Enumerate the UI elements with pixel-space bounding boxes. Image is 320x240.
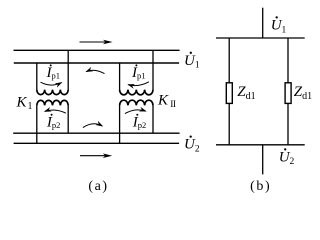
transformer K1 primary winding [37,90,68,95]
current label Ip1 (K2) [131,64,146,80]
current arrow Ip1 (K1) [41,82,62,85]
wire: bottom busbar line 2 (outer) [14,142,180,144]
svg-text:Ip2: Ip2 [46,114,61,130]
transformer K2 primary left lead [119,63,121,90]
current label Ip2 (K2) [132,114,147,131]
current label Ip2 (K1) [46,114,61,131]
transformer K1 secondary winding [37,100,68,105]
svg-text:Ip2: Ip2 [132,114,147,130]
wire: bottom busbar line 1 (inner) [13,132,179,134]
svg-text:U2: U2 [184,137,200,155]
transformer K2 secondary left lead [119,105,121,143]
transformer K2 primary winding [120,90,153,95]
impedance Zd1 right box [285,83,291,104]
current label Ip1 (K1) [46,64,61,80]
node U1 label (a) [184,52,200,71]
node U1 label (b) [271,16,287,35]
wire: left branch lower (b) [228,103,230,144]
circulating current arrow lower middle [83,124,102,128]
svg-text:KII: KII [157,92,176,110]
wire: right branch upper (b) [287,38,289,83]
svg-text:K1: K1 [16,94,33,112]
transformer K2 primary right lead [152,50,154,90]
svg-text:Ip1: Ip1 [131,65,146,81]
transformer K1 secondary left lead [36,105,38,143]
impedance Zd1 left box [226,83,232,104]
current arrow below bottom busbar [80,153,112,158]
node U2 label (a) [184,135,200,154]
wire: left branch upper (b) [228,38,230,83]
current arrow above top busbar [80,40,113,45]
transformer K1 primary left lead [36,63,38,90]
node U2 label (b) [279,148,295,167]
wire: U1 stub (b) [262,8,264,38]
current arrow Ip1 (K2) [128,82,149,86]
wire: right branch lower (b) [287,103,289,144]
svg-text:Ip1: Ip1 [46,65,61,81]
transformer K2 secondary winding [120,100,153,105]
wire: U2 stub (b) [262,145,264,175]
wire: top rail (b) [216,37,305,39]
svg-text:U1: U1 [184,53,200,71]
transformer K1 primary right lead [67,50,69,90]
current arrow Ip2 (K2) [125,110,146,114]
svg-text:(a): (a) [88,179,108,194]
svg-text:(b): (b) [250,179,271,194]
svg-text:U1: U1 [271,18,287,36]
wire: top busbar line 1 (outer) [14,49,180,51]
wire: bottom rail (b) [216,144,305,146]
transformer K1 secondary right lead [67,105,69,133]
wire: top busbar line 2 (inner) [14,62,179,64]
transformer K2 secondary right lead [152,105,154,133]
svg-text:U2: U2 [279,149,295,167]
svg-text:Zd1: Zd1 [237,84,255,102]
circulating current arrow upper middle [86,70,104,73]
svg-text:Zd1: Zd1 [294,84,312,102]
current arrow Ip2 (K1) [45,110,66,113]
